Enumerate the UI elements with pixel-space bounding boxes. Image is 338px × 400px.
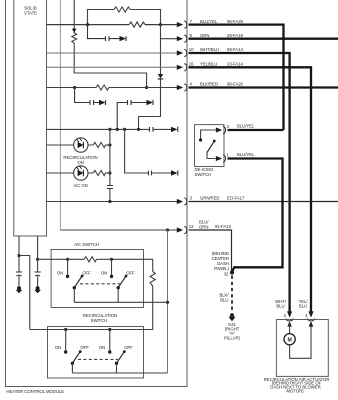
- wire rail to dropping resistor: [144, 259, 153, 329]
- wire de-icing pin1 harness BLU/YEL to ground junction: [228, 159, 283, 272]
- svg-text:PILLAR): PILLAR): [224, 336, 241, 341]
- wire vertical x167 switch common: [167, 230, 169, 373]
- wire pin 4 harness: [189, 86, 338, 88]
- wire LED supply rail (line A): [47, 128, 172, 130]
- wire a/c top rail: [38, 258, 144, 260]
- svg-text:96-FA26: 96-FA26: [227, 82, 244, 87]
- wire row pin 4: [47, 87, 178, 89]
- motor M: [284, 334, 295, 345]
- wire pin 3 harness: [189, 201, 338, 203]
- wire vertical with resistor from top: [74, 0, 146, 88]
- wire to node: [106, 144, 110, 146]
- connector pin 3: [177, 198, 187, 205]
- wire a/c bottom rail: [74, 301, 167, 303]
- svg-text:ON: ON: [77, 160, 83, 165]
- resistor on loop: [114, 7, 130, 12]
- heater control module box: [6, 0, 188, 387]
- diode on shunt C: [147, 100, 154, 105]
- ground stub 1 from solid state box: [18, 236, 20, 287]
- svg-text:1: 1: [227, 153, 230, 158]
- svg-text:GRN/RED: GRN/RED: [200, 196, 219, 201]
- svg-text:PANEL): PANEL): [214, 266, 230, 271]
- svg-text:ON: ON: [57, 271, 63, 276]
- wire pin 7 harness: [189, 25, 284, 130]
- junction node splice: [230, 270, 234, 274]
- label RECIRCULATION SWITCH: [83, 313, 117, 323]
- svg-text:10: 10: [189, 47, 194, 52]
- svg-text:HEATER CONTROL MODULE: HEATER CONTROL MODULE: [6, 389, 64, 394]
- diode arrow on line A right: [171, 127, 178, 132]
- svg-text:2: 2: [284, 313, 287, 318]
- dashed gang link a/c: [80, 283, 120, 285]
- shunt capacitor-diode from pin4 node: [75, 88, 106, 106]
- svg-text:ON: ON: [55, 345, 61, 350]
- pin 7 labels: [190, 19, 244, 24]
- node line A x117: [116, 128, 119, 131]
- node line A x110: [108, 128, 111, 131]
- svg-text:3: 3: [227, 124, 230, 129]
- node pin4 x74: [73, 86, 76, 89]
- svg-text:7: 7: [190, 19, 193, 24]
- capacitor on y173 branch: [149, 171, 152, 176]
- connector pin 7: [177, 21, 187, 28]
- capacitor on stub1: [16, 272, 22, 276]
- connector pin 16: [177, 64, 187, 71]
- svg-text:OFF: OFF: [80, 345, 89, 350]
- pin 9 labels: [190, 33, 244, 38]
- arrow down on x74 vertical: [72, 29, 77, 33]
- node line A x124: [123, 128, 126, 131]
- svg-text:MOTOR): MOTOR): [286, 389, 304, 394]
- svg-text:SWITCH: SWITCH: [91, 318, 108, 323]
- node pin4 line x146: [145, 86, 148, 89]
- svg-text:96-FA28: 96-FA28: [227, 19, 244, 24]
- de-icing switch internals: [199, 130, 216, 159]
- de-icing switch box: [195, 125, 225, 167]
- resistor after LED1: [93, 142, 106, 147]
- connector pin 4: [177, 84, 187, 91]
- wire into LED1: [47, 144, 94, 146]
- parallel resistor loop: [88, 10, 161, 25]
- ground G41 symbol: [228, 313, 235, 321]
- ground stub 2 from solid state box: [37, 236, 39, 287]
- diode on shunt A: [120, 36, 127, 41]
- resistor after LED2: [93, 170, 106, 175]
- svg-text:59-FA14: 59-FA14: [227, 47, 244, 52]
- label BLK/BLU: [219, 293, 229, 303]
- resistor vertical x152: [150, 272, 155, 287]
- a/c switch 1: [66, 259, 84, 302]
- pin 10 labels: [189, 47, 244, 52]
- dashed ground wire: [231, 276, 233, 313]
- wire vertical feed to pin 12: [59, 0, 61, 230]
- svg-text:OFF: OFF: [82, 270, 91, 275]
- wire row pin 3: [47, 201, 178, 203]
- svg-text:BLU: BLU: [299, 304, 307, 309]
- shunt capacitor-diode from node A: [88, 25, 127, 41]
- diode down on x160: [158, 74, 163, 79]
- wire de-icing pin3 harness BLU/YEL: [228, 129, 284, 131]
- connector pin 12: [177, 226, 187, 233]
- label recirculation air actuator: [264, 377, 330, 394]
- node A: [86, 23, 89, 26]
- dashed gang link recirc: [78, 358, 118, 360]
- recirculation air actuator box: [276, 320, 328, 377]
- capacitor on x110: [107, 186, 113, 189]
- capacitor on stub2: [34, 272, 40, 276]
- svg-text:SWITCH: SWITCH: [195, 172, 212, 177]
- svg-text:WHT/BLU: WHT/BLU: [200, 47, 219, 52]
- pin 16 labels: [189, 62, 244, 67]
- actuator wire labels: [275, 299, 308, 309]
- de-icing pin 3 arrow: [216, 124, 230, 134]
- wire branch x124 to de-icing feed: [125, 129, 171, 173]
- diode on shunt B: [99, 100, 106, 105]
- node line A x138: [137, 128, 140, 131]
- label behind center dash panel: [212, 251, 230, 277]
- node recirc rail x65: [64, 328, 67, 331]
- ground symbol stub2: [34, 286, 41, 293]
- wire row pin 9: [161, 38, 178, 40]
- svg-text:91-FA13: 91-FA13: [215, 224, 232, 229]
- wire vertical node B down with diode: [139, 25, 161, 130]
- resistor on pin7 row: [129, 22, 145, 27]
- label SOLID STATE: [24, 6, 37, 16]
- a/c switch box: [51, 250, 143, 308]
- svg-text:BLK/RED: BLK/RED: [200, 82, 218, 87]
- resistor on vertical x74: [72, 33, 77, 43]
- svg-text:23-FA14: 23-FA14: [227, 62, 244, 67]
- svg-text:BLU/YEL: BLU/YEL: [237, 124, 255, 129]
- label G41: [224, 322, 241, 341]
- svg-text:32: 32: [224, 272, 229, 277]
- pin 4 labels: [190, 82, 244, 87]
- de-icing pin 1 arrow: [216, 153, 230, 163]
- connector pin 9: [177, 35, 187, 42]
- node LED1: [108, 143, 111, 146]
- svg-text:12: 12: [189, 224, 194, 229]
- svg-text:ON: ON: [101, 271, 107, 276]
- wire row pin 16: [47, 66, 178, 68]
- wire pin 12 harness: [189, 230, 232, 271]
- node x167 y302: [166, 301, 169, 304]
- wire pin 16 harness: [189, 67, 312, 313]
- node rail x111: [110, 258, 113, 261]
- pin 12 labels: [189, 220, 232, 230]
- svg-text:ON: ON: [99, 345, 105, 350]
- node stub2: [36, 258, 39, 261]
- wire into LED2: [47, 172, 94, 174]
- svg-text:4: 4: [190, 82, 193, 87]
- solid state box: [14, 0, 47, 236]
- shunt capacitor-diode stub at x117: [117, 100, 153, 129]
- wire row pin 10: [47, 52, 178, 54]
- wire vertical x110 with capacitor: [109, 129, 111, 201]
- wire row pin 7 (power): [47, 24, 178, 26]
- LED A/C indicator: [74, 166, 88, 180]
- svg-text:EO-FA17: EO-FA17: [227, 196, 245, 201]
- svg-text:3: 3: [190, 196, 193, 201]
- svg-text:29-FA19: 29-FA19: [227, 33, 244, 38]
- wire recirc bottom rail: [72, 372, 167, 374]
- wire recirc top rail: [30, 329, 144, 331]
- wire to node: [106, 172, 110, 174]
- node recirc rail x109: [108, 328, 111, 331]
- svg-text:ORN: ORN: [199, 225, 208, 230]
- recirc switch 2: [108, 330, 126, 374]
- svg-text:BLU/YEL: BLU/YEL: [237, 152, 255, 157]
- node stub1: [17, 254, 20, 257]
- wire row pin 12: [60, 229, 177, 231]
- svg-text:16: 16: [189, 62, 194, 67]
- svg-text:OFF: OFF: [124, 345, 133, 350]
- svg-text:4: 4: [305, 313, 308, 318]
- actuator pin 4 arrow: [305, 311, 315, 321]
- actuator internal pin 4: [309, 321, 314, 326]
- svg-text:BLU: BLU: [276, 304, 284, 309]
- svg-text:BLU: BLU: [220, 298, 228, 303]
- ground symbol stub1: [16, 286, 23, 293]
- node rail x67: [66, 258, 69, 261]
- node pin3 x110: [108, 200, 111, 203]
- svg-text:A/C SWITCH: A/C SWITCH: [74, 242, 99, 247]
- svg-text:YEL/BLU: YEL/BLU: [200, 62, 217, 67]
- a/c switch 2: [110, 259, 128, 302]
- svg-text:M: M: [287, 337, 291, 343]
- svg-text:OFF: OFF: [126, 270, 135, 275]
- pin 3 labels: [190, 196, 245, 201]
- svg-text:GRN: GRN: [200, 33, 209, 38]
- svg-text:9: 9: [190, 33, 193, 38]
- wire pin 10 harness: [189, 53, 290, 314]
- wire branch to recirc switch rail: [19, 256, 30, 330]
- node pin12 x167: [166, 228, 169, 231]
- actuator internal loop: [290, 324, 311, 358]
- actuator pin 2 arrow: [284, 311, 294, 321]
- svg-text:STATE: STATE: [24, 11, 37, 16]
- diode arrow on y173 branch: [171, 170, 178, 175]
- label RECIRCULATION ON: [63, 155, 97, 165]
- resistor on pin4 row: [96, 85, 109, 90]
- wire pin 9 harness: [189, 38, 338, 40]
- connector pin 10: [177, 49, 187, 56]
- LED recirculation indicator: [74, 138, 88, 152]
- resistor on a/c rail: [84, 257, 97, 262]
- node B: [159, 23, 162, 26]
- recirc switch 1: [64, 330, 82, 374]
- label DE-ICING SWITCH: [195, 167, 215, 177]
- svg-text:A/C ON: A/C ON: [73, 183, 88, 188]
- node LED2: [108, 171, 111, 174]
- svg-text:BLU/YEL: BLU/YEL: [200, 19, 218, 24]
- capacitor on line A right: [150, 127, 154, 132]
- recirculation switch box: [48, 327, 144, 379]
- actuator internal pin 2: [287, 321, 292, 334]
